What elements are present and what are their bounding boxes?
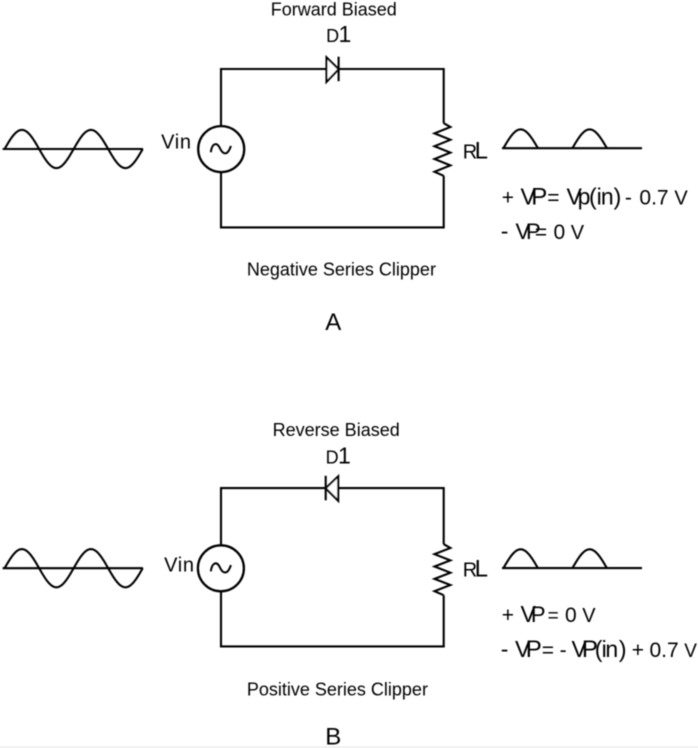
- svg-text:-VP=-VP(in)+0.7V: -VP=-VP(in)+0.7V: [501, 636, 698, 663]
- svg-text:Negative Series Clipper: Negative Series Clipper: [247, 260, 436, 280]
- svg-text:RL: RL: [463, 556, 488, 583]
- svg-text:+VP=Vp(in)-0.7V: +VP=Vp(in)-0.7V: [502, 184, 689, 211]
- svg-text:RL: RL: [463, 138, 488, 165]
- svg-text:Forward Biased: Forward Biased: [271, 0, 397, 20]
- svg-text:Positive Series Clipper: Positive Series Clipper: [247, 680, 428, 700]
- svg-text:Reverse Biased: Reverse Biased: [273, 420, 400, 440]
- svg-text:Vin: Vin: [164, 554, 195, 576]
- svg-text:A: A: [325, 309, 341, 336]
- svg-text:Vin: Vin: [161, 132, 192, 154]
- svg-text:B: B: [325, 724, 341, 748]
